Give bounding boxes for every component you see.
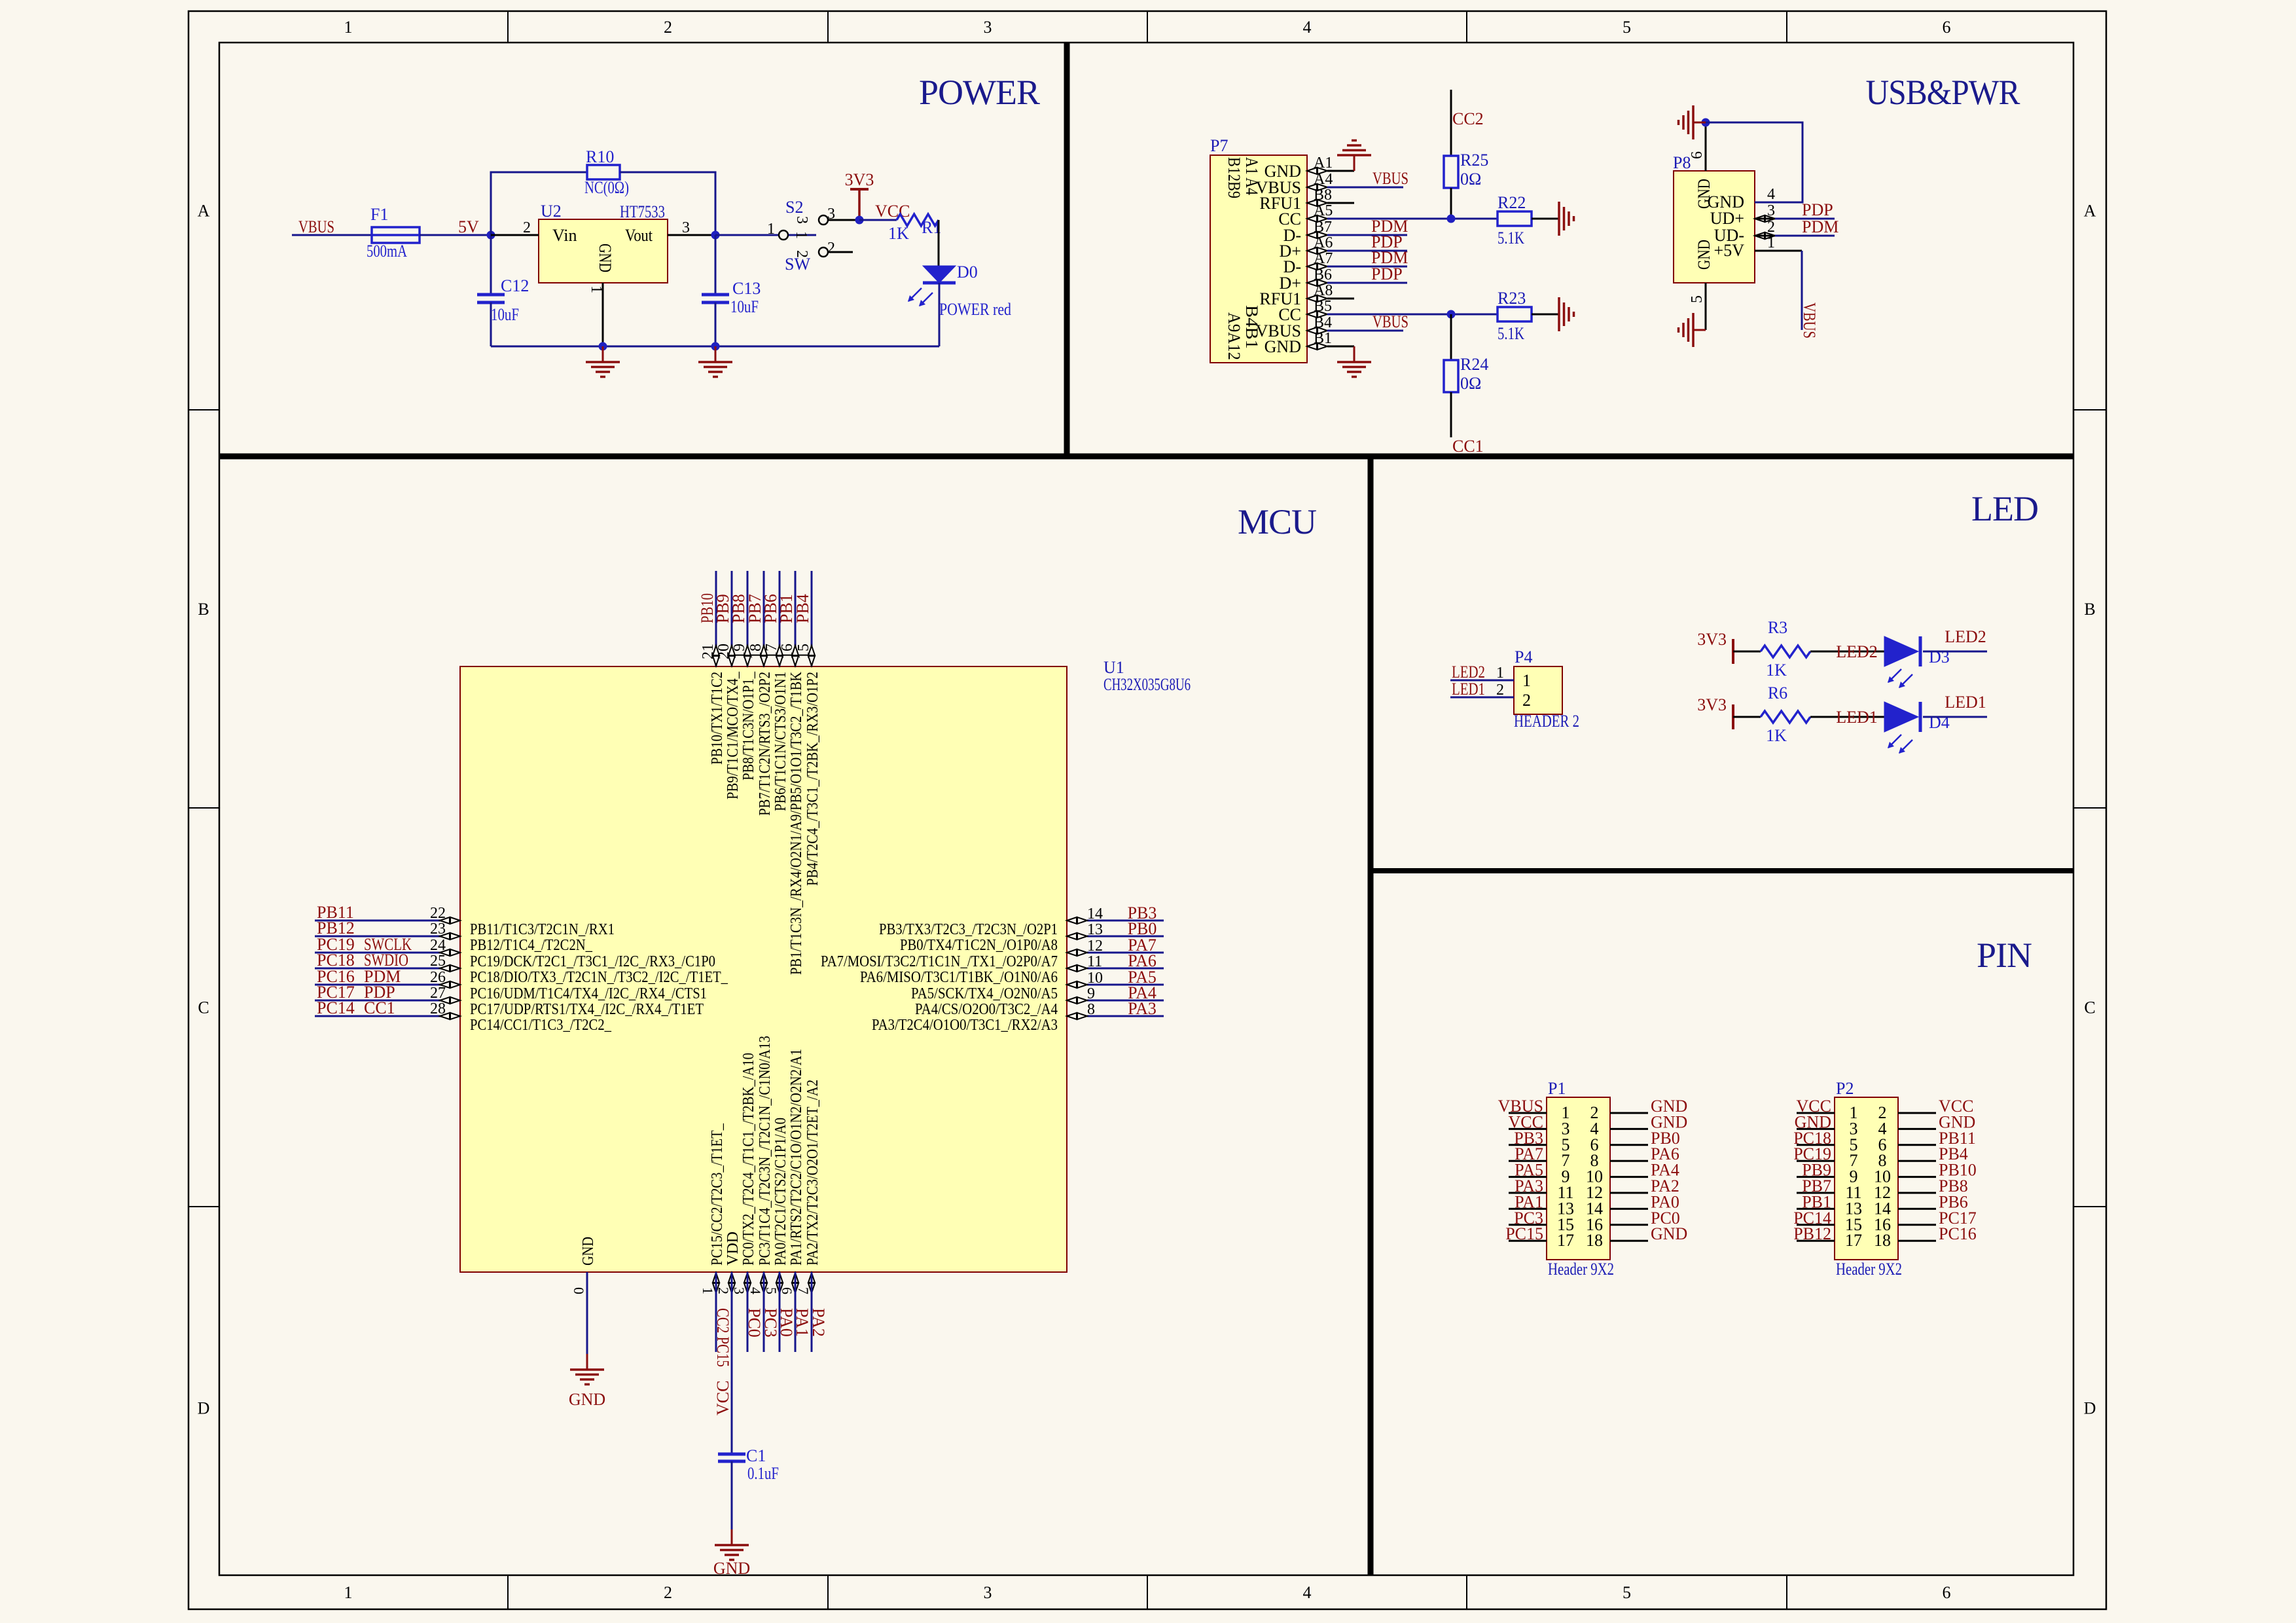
svg-text:LED2: LED2	[1836, 642, 1878, 661]
svg-text:PA2/TX2/T2C3/O2O1/T2ET_/A2: PA2/TX2/T2C3/O2O1/T2ET_/A2	[804, 1080, 821, 1266]
svg-text:PB1/T1C3N_/RX4/O2N1/A9/PB5/O1O: PB1/T1C3N_/RX4/O2N1/A9/PB5/O1O1/T3C2_/T1…	[788, 671, 805, 975]
svg-text:GND: GND	[580, 1237, 597, 1266]
svg-text:13: 13	[1087, 921, 1103, 938]
svg-text:2: 2	[523, 219, 531, 236]
svg-text:F1: F1	[370, 205, 388, 224]
svg-text:PC18/DIO/TX3_/T2C1N_/T3C2_/I2C: PC18/DIO/TX3_/T2C1N_/T3C2_/I2C_/T1ET_	[470, 969, 728, 986]
svg-text:PDP: PDP	[1802, 200, 1833, 219]
svg-text:PC15/CC2/T2C3_/T1ET_: PC15/CC2/T2C3_/T1ET_	[709, 1123, 726, 1266]
svg-text:B: B	[2084, 600, 2095, 619]
svg-text:1: 1	[767, 221, 775, 238]
svg-text:R24: R24	[1460, 355, 1488, 374]
svg-text:17: 17	[1557, 1231, 1574, 1250]
svg-text:PA1/RTS2/T2C2/C1O/O1N2/O2N2/A1: PA1/RTS2/T2C2/C1O/O1N2/O2N2/A1	[788, 1049, 805, 1266]
svg-text:10uF: 10uF	[491, 305, 519, 324]
svg-text:5.1K: 5.1K	[1498, 324, 1524, 343]
svg-text:C1: C1	[746, 1446, 766, 1465]
svg-text:1: 1	[1522, 671, 1531, 690]
svg-text:10uF: 10uF	[730, 297, 759, 316]
svg-text:11: 11	[1087, 953, 1102, 970]
svg-text:D3: D3	[1929, 647, 1950, 666]
svg-text:2: 2	[1522, 691, 1531, 710]
svg-text:HEADER 2: HEADER 2	[1514, 712, 1579, 731]
svg-text:PB10/TX1/T1C2: PB10/TX1/T1C2	[709, 672, 726, 765]
svg-text:3: 3	[1767, 202, 1775, 219]
svg-text:PDM: PDM	[1802, 217, 1839, 236]
svg-text:U2: U2	[541, 202, 562, 221]
svg-text:2: 2	[715, 1287, 732, 1294]
svg-text:LED2: LED2	[1452, 663, 1485, 682]
svg-text:1: 1	[700, 1287, 716, 1294]
svg-text:P4: P4	[1515, 647, 1532, 666]
svg-text:Vin: Vin	[552, 226, 577, 245]
svg-text:S2: S2	[785, 198, 803, 217]
svg-text:VDD: VDD	[725, 1231, 742, 1266]
svg-text:POWER: POWER	[919, 73, 1040, 112]
svg-text:B4B1: B4B1	[1242, 305, 1261, 349]
svg-text:LED1: LED1	[1836, 708, 1878, 727]
svg-text:5: 5	[1623, 18, 1631, 37]
svg-text:PC0: PC0	[745, 1308, 764, 1338]
svg-text:0.1uF: 0.1uF	[747, 1464, 779, 1483]
svg-text:3V3: 3V3	[1697, 695, 1727, 714]
svg-text:1K: 1K	[1766, 726, 1787, 745]
svg-text:3V3: 3V3	[845, 170, 874, 189]
svg-text:B: B	[198, 600, 209, 619]
svg-text:0Ω: 0Ω	[1460, 374, 1481, 393]
svg-text:R25: R25	[1460, 151, 1488, 170]
svg-text:0Ω: 0Ω	[1460, 170, 1481, 189]
svg-text:PB4/T2C4_/T3C1_/T2BK_/RX3/O1P2: PB4/T2C4_/T3C1_/T2BK_/RX3/O1P2	[804, 672, 821, 886]
svg-text:B12B9: B12B9	[1225, 157, 1244, 198]
svg-text:12: 12	[1087, 938, 1103, 955]
svg-text:PB4: PB4	[793, 594, 812, 623]
svg-text:3: 3	[827, 206, 835, 223]
svg-text:GND: GND	[596, 244, 615, 272]
svg-text:PB7/T1C2N/RTS3_/O2P2: PB7/T1C2N/RTS3_/O2P2	[757, 672, 774, 816]
svg-text:5: 5	[1623, 1583, 1631, 1602]
svg-text:NC(0Ω): NC(0Ω)	[584, 178, 629, 197]
svg-text:6: 6	[1943, 1583, 1951, 1602]
svg-text:PB8/T1C3N/O1P1_: PB8/T1C3N/O1P1_	[740, 671, 757, 780]
svg-text:U1: U1	[1103, 658, 1124, 677]
svg-text:2: 2	[827, 240, 835, 257]
svg-text:D: D	[198, 1399, 210, 1418]
svg-text:UD+: UD+	[1710, 209, 1744, 228]
svg-text:5: 5	[763, 1287, 780, 1294]
svg-text:A: A	[2084, 202, 2096, 221]
svg-text:R23: R23	[1498, 289, 1526, 308]
svg-text:A9A12: A9A12	[1225, 312, 1244, 360]
svg-text:4: 4	[1303, 1583, 1312, 1602]
svg-text:USB&PWR: USB&PWR	[1866, 73, 2020, 112]
svg-text:PC0/TX2_/T2C4_/T1C1_/T2BK_/A10: PC0/TX2_/T2C4_/T1C1_/T2BK_/A10	[740, 1053, 757, 1266]
svg-text:LED: LED	[1971, 489, 2038, 528]
svg-text:PDP: PDP	[1371, 264, 1403, 283]
svg-text:PC17/UDP/RTS1/TX4_/I2C_/RX4_/T: PC17/UDP/RTS1/TX4_/I2C_/RX4_/T1ET	[470, 1001, 704, 1018]
svg-text:PA3: PA3	[1128, 999, 1157, 1018]
svg-text:PC16/UDM/T1C4/TX4_/I2C_/RX4_/C: PC16/UDM/T1C4/TX4_/I2C_/RX4_/CTS1	[470, 985, 707, 1002]
svg-text:C13: C13	[732, 279, 761, 298]
svg-text:1K: 1K	[888, 224, 909, 243]
svg-text:VBUS: VBUS	[1372, 169, 1408, 188]
svg-text:PB0/TX4/T1C2N_/O1P0/A8: PB0/TX4/T1C2N_/O1P0/A8	[900, 937, 1058, 954]
svg-text:CC2 PC15: CC2 PC15	[713, 1308, 732, 1367]
svg-text:Vout: Vout	[625, 226, 653, 245]
svg-text:D4: D4	[1929, 713, 1950, 732]
svg-text:5.1K: 5.1K	[1498, 228, 1524, 247]
svg-text:Header 9X2: Header 9X2	[1836, 1260, 1902, 1279]
svg-text:7: 7	[795, 1287, 812, 1294]
svg-text:C: C	[2084, 998, 2095, 1017]
svg-text:17: 17	[1845, 1231, 1862, 1250]
svg-text:PA4/CS/O2O0/T3C2_/A4: PA4/CS/O2O0/T3C2_/A4	[915, 1001, 1058, 1018]
svg-text:6: 6	[1689, 151, 1706, 159]
svg-text:GND: GND	[1695, 179, 1713, 209]
svg-text:R3: R3	[1768, 618, 1787, 637]
svg-text:VBUS: VBUS	[1800, 302, 1819, 338]
svg-text:PC15: PC15	[1505, 1224, 1543, 1243]
svg-text:C: C	[198, 998, 209, 1017]
svg-text:P2: P2	[1836, 1079, 1854, 1098]
svg-text:2: 2	[1767, 219, 1775, 236]
svg-text:PC14: PC14	[317, 998, 355, 1017]
svg-text:14: 14	[1087, 905, 1103, 922]
svg-text:18: 18	[1586, 1231, 1603, 1250]
svg-text:LED1: LED1	[1945, 693, 1986, 712]
svg-text:PA1: PA1	[793, 1308, 812, 1337]
svg-text:LED1: LED1	[1452, 680, 1485, 699]
svg-text:3: 3	[984, 18, 992, 37]
svg-text:VBUS: VBUS	[298, 217, 334, 236]
svg-text:D: D	[2084, 1399, 2096, 1418]
svg-text:2: 2	[664, 18, 672, 37]
svg-text:R22: R22	[1498, 193, 1526, 212]
svg-text:1: 1	[1496, 665, 1504, 682]
svg-text:18: 18	[1874, 1231, 1891, 1250]
svg-text:GND: GND	[1695, 240, 1713, 270]
svg-text:A1 A4: A1 A4	[1242, 157, 1261, 195]
svg-text:POWER red: POWER red	[939, 300, 1011, 319]
svg-text:GND: GND	[1651, 1224, 1687, 1243]
svg-text:PB11/T1C3/T2C1N_/RX1: PB11/T1C3/T2C1N_/RX1	[470, 921, 615, 938]
svg-text:CC1: CC1	[1452, 437, 1484, 456]
svg-text:+5V: +5V	[1714, 241, 1745, 260]
svg-text:PB9/T1C1/MCO/TX4_: PB9/T1C1/MCO/TX4_	[725, 671, 742, 799]
svg-text:PA2: PA2	[809, 1308, 828, 1337]
svg-text:PC14/CC1/T1C3_/T2C2_: PC14/CC1/T1C3_/T2C2_	[470, 1017, 612, 1034]
svg-text:PC16: PC16	[1939, 1224, 1977, 1243]
svg-text:LED2: LED2	[1945, 627, 1986, 646]
svg-text:PA3/T2C4/O1O0/T3C1_/RX2/A3: PA3/T2C4/O1O0/T3C1_/RX2/A3	[872, 1017, 1058, 1034]
svg-text:PC3/T1C4_/T2C3N_/T2C1N_/C1N0/A: PC3/T1C4_/T2C3N_/T2C1N_/C1N0/A13	[757, 1036, 774, 1266]
svg-text:4: 4	[1303, 18, 1312, 37]
svg-text:9: 9	[1087, 985, 1095, 1002]
svg-text:VCC: VCC	[875, 202, 910, 221]
svg-text:CC1: CC1	[364, 998, 395, 1017]
svg-text:3: 3	[682, 219, 690, 236]
svg-text:3: 3	[984, 1583, 992, 1602]
svg-text:6: 6	[779, 1287, 795, 1294]
svg-text:3: 3	[793, 216, 810, 224]
svg-text:PB6/T1C1N/CTS3/O1N1: PB6/T1C1N/CTS3/O1N1	[772, 672, 789, 811]
svg-text:0: 0	[571, 1287, 587, 1294]
svg-text:8: 8	[1087, 1001, 1095, 1018]
svg-text:Header 9X2: Header 9X2	[1548, 1260, 1614, 1279]
svg-text:1: 1	[344, 18, 353, 37]
svg-text:C12: C12	[501, 276, 529, 295]
svg-text:GND: GND	[713, 1559, 750, 1578]
svg-text:1: 1	[1767, 234, 1775, 251]
svg-text:6: 6	[1943, 18, 1951, 37]
svg-text:3V3: 3V3	[1697, 630, 1727, 649]
svg-text:VBUS: VBUS	[1372, 312, 1408, 331]
svg-text:D0: D0	[957, 263, 978, 282]
svg-text:1: 1	[793, 231, 810, 239]
svg-text:2: 2	[1496, 682, 1504, 699]
svg-text:3: 3	[731, 1287, 747, 1294]
svg-text:VCC: VCC	[713, 1381, 732, 1415]
svg-text:R6: R6	[1768, 684, 1787, 702]
svg-text:P1: P1	[1548, 1079, 1566, 1098]
svg-text:PB12: PB12	[1793, 1224, 1831, 1243]
svg-text:2: 2	[664, 1583, 672, 1602]
svg-text:GND: GND	[1265, 337, 1301, 356]
svg-text:500mA: 500mA	[367, 242, 407, 261]
svg-text:PB12/T1C4_/T2C2N_: PB12/T1C4_/T2C2N_	[470, 937, 593, 954]
svg-text:MCU: MCU	[1238, 502, 1316, 541]
svg-text:5: 5	[1689, 295, 1706, 303]
svg-text:10: 10	[1087, 970, 1103, 987]
svg-text:HT7533: HT7533	[620, 202, 665, 221]
svg-text:PB3/TX3/T2C3_/T2C3N_/O2P1: PB3/TX3/T2C3_/T2C3N_/O2P1	[879, 921, 1058, 938]
svg-text:2: 2	[793, 250, 810, 258]
svg-text:4: 4	[1767, 186, 1775, 203]
svg-text:PC19/DCK/T2C1_/T3C1_/I2C_/RX3_: PC19/DCK/T2C1_/T3C1_/I2C_/RX3_/C1P0	[470, 953, 715, 970]
svg-text:PIN: PIN	[1977, 936, 2032, 975]
svg-text:PA5/SCK/TX4_/O2N0/A5: PA5/SCK/TX4_/O2N0/A5	[911, 985, 1058, 1002]
svg-text:PA6/MISO/T3C1/T1BK_/O1N0/A6: PA6/MISO/T3C1/T1BK_/O1N0/A6	[860, 969, 1058, 986]
svg-text:5V: 5V	[458, 217, 479, 236]
svg-text:CH32X035G8U6: CH32X035G8U6	[1103, 675, 1191, 694]
svg-text:1K: 1K	[1766, 661, 1787, 680]
svg-text:R10: R10	[586, 147, 614, 166]
svg-text:GND: GND	[569, 1390, 605, 1409]
svg-text:4: 4	[747, 1287, 764, 1294]
svg-text:1: 1	[588, 285, 605, 293]
svg-text:CC2: CC2	[1452, 109, 1484, 128]
svg-text:1: 1	[344, 1583, 353, 1602]
svg-text:P7: P7	[1210, 136, 1228, 155]
svg-text:A: A	[198, 202, 210, 221]
svg-text:PA0/T2C1/CTS2/C1P1/A0: PA0/T2C1/CTS2/C1P1/A0	[772, 1118, 789, 1266]
svg-text:PA7/MOSI/T3C2/T1C1N_/TX1_/O2P0: PA7/MOSI/T3C2/T1C1N_/TX1_/O2P0/A7	[821, 953, 1058, 970]
